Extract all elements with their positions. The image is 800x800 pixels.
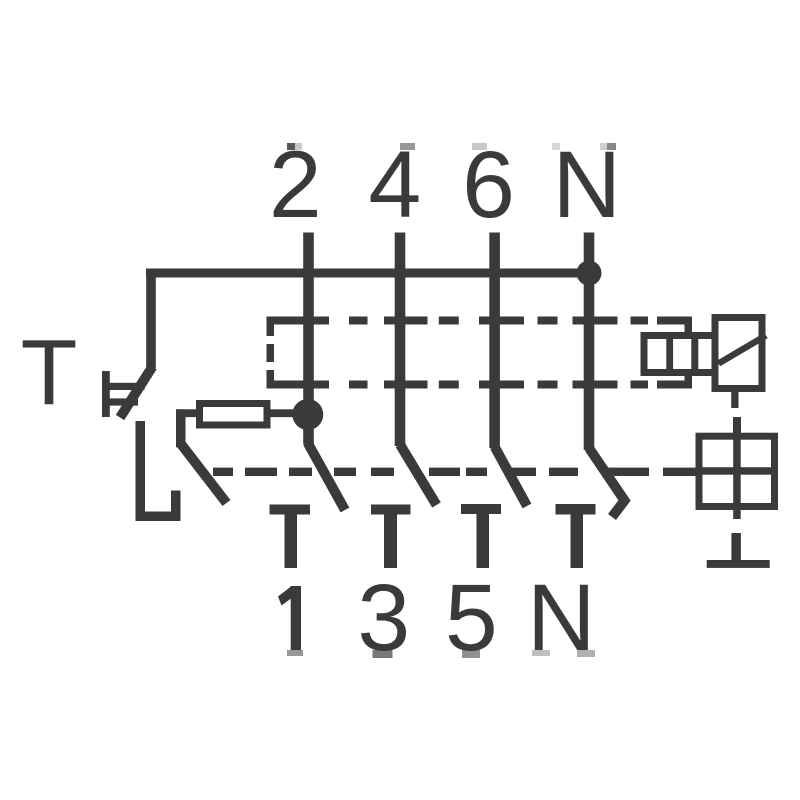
svg-text:T: T bbox=[21, 320, 78, 424]
svg-text:4: 4 bbox=[368, 132, 421, 238]
svg-text:5: 5 bbox=[445, 565, 498, 671]
svg-text:N: N bbox=[527, 565, 596, 671]
svg-text:3: 3 bbox=[357, 565, 410, 671]
svg-text:2: 2 bbox=[269, 132, 322, 238]
svg-text:N: N bbox=[552, 132, 621, 238]
svg-text:6: 6 bbox=[462, 132, 515, 238]
